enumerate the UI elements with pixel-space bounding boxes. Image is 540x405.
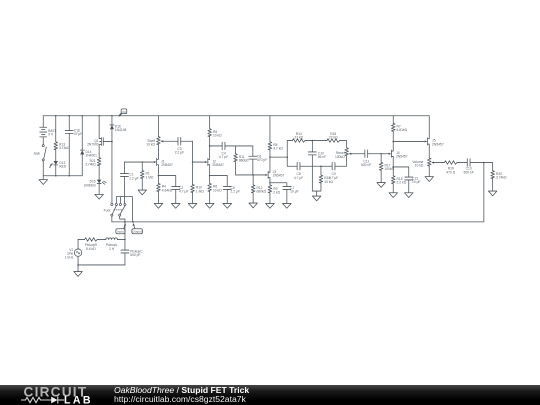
ground (C12): [404, 193, 413, 198]
transistor J4 2N5457: [389, 150, 408, 167]
capacitor C2 4.7uF (J1 bypass): [158, 176, 188, 204]
source V1 sine 1kHz: [65, 239, 82, 265]
capacitor C6 470pF: [249, 146, 267, 175]
potentiometer Volume 10k: [412, 158, 444, 177]
diode D16 1N4148: [110, 116, 127, 204]
diode D14 1N4001: [80, 116, 97, 176]
ground (V1): [74, 265, 83, 276]
capacitor C7 10uF (J3 bypass): [270, 183, 299, 204]
capacitor C1 2.2uF input cap: [120, 162, 138, 197]
transistor J5 2N5457 source follower: [425, 116, 444, 158]
resistor R11 680k: [234, 146, 253, 175]
resistor R9 2k (J3 source): [268, 183, 280, 204]
wire J4 drain to J5 gate: [393, 141, 424, 143]
svg-text:LAB: LAB: [64, 395, 93, 405]
resistor R21 3.74k (green LED): [85, 154, 101, 180]
capacitor C10 56nF (twin-T center): [308, 141, 326, 192]
capacitor C5 2.2uF (J2 bypass): [210, 176, 240, 204]
resistor R19 470 ohm output: [444, 161, 467, 175]
capacitor PickupC 500pF: [121, 249, 143, 265]
resistor R17 100k (J4 gate): [379, 154, 394, 183]
resistor R12 680k: [251, 175, 266, 203]
ground (R12): [249, 203, 258, 208]
node Output flag: [132, 223, 143, 234]
junction dots bottom-left rail: [55, 175, 57, 177]
resistor R6 10k (J2 source): [208, 176, 222, 204]
ground (C5): [223, 203, 232, 208]
capacitor C3 2.2uF: [175, 137, 193, 154]
resistor R4 4.64k (J1 source): [157, 176, 173, 204]
switch SW Jack: [33, 145, 46, 176]
wire J3 drain to twin-T: [270, 156, 287, 158]
potentiometer Shelf 10k (J1 drain): [146, 116, 178, 155]
ground (R18): [389, 193, 398, 198]
wire bottom-left rail: [43, 175, 82, 177]
resistor R7 6.81k (J4 drain): [391, 116, 407, 151]
switch SW2 Foot (DPDT bypass): [104, 197, 133, 222]
capacitor C11 500nF: [361, 150, 389, 167]
resistor R16 27k (twin-T top right): [312, 132, 346, 148]
transistor J1 2N5457: [154, 155, 173, 176]
inductor PickupL 2H: [106, 238, 125, 251]
resistor R13 3.74k (red LED dropper): [54, 116, 70, 161]
resistor PickupR 5.6k: [78, 238, 106, 251]
resistor R10 1M (J2 gate leak): [191, 162, 205, 203]
capacitor C12 10uF (J4 bypass): [393, 167, 420, 193]
resistor R1 1M: [140, 162, 154, 190]
capacitor C16 47uF: [65, 116, 82, 176]
ground (twin-T): [312, 196, 321, 201]
LED D15 GREEN: [84, 180, 106, 195]
battery BAT1 9V: [40, 116, 57, 145]
ground (green LED): [95, 194, 104, 199]
transistor Q1 2N7000: [87, 116, 112, 154]
ground (R17): [377, 183, 386, 188]
wire output return: [112, 163, 484, 222]
ground (R9): [266, 203, 275, 208]
wire J3 gate: [253, 174, 265, 176]
wire twin-T left vertical: [286, 141, 288, 167]
ground (R1): [138, 190, 147, 195]
LED D13 RED: [50, 161, 67, 176]
ground (R4): [154, 203, 163, 208]
ground (R6): [205, 203, 214, 208]
capacitor C8 4.7uF (twin-T bottom left): [287, 162, 332, 179]
wire pickup node: [124, 222, 126, 250]
resistor R18 2.2k (J4 source): [391, 167, 406, 193]
resistor R8 4.7k (J3 drain): [268, 116, 283, 173]
node VA flag: [119, 109, 127, 116]
top power rail VA: [43, 115, 429, 117]
junction dots top rail: [55, 115, 57, 117]
ground (R10): [188, 203, 197, 208]
transistor J3 2N5457: [265, 170, 284, 183]
ground (Volume pot): [425, 177, 434, 182]
transistor J2 2N5457: [205, 158, 224, 175]
footer bar: [0, 385, 540, 405]
resistor R5 10k (J2 drain): [208, 116, 222, 160]
wire C3 to J2 gate: [193, 141, 206, 162]
ground (R20): [488, 191, 497, 196]
ground (C7): [283, 203, 292, 208]
capacitor C4 4.7uF coupling: [210, 142, 236, 159]
node Input flag: [116, 223, 126, 234]
ground (C2): [171, 203, 180, 208]
node Q1 gate junction: [111, 141, 113, 143]
resistor R14 27k (twin-T top left): [287, 132, 312, 143]
resistor R15 10k (twin-T shunt): [312, 166, 333, 196]
resistor R20 3.74k output load: [491, 163, 507, 192]
wire pickup bottom: [78, 264, 125, 266]
ground (battery): [39, 176, 48, 185]
wire J1 gate rail: [124, 161, 153, 163]
capacitor C9 4.7uF (twin-T bottom right): [329, 160, 347, 180]
potentiometer Reset 100k: [335, 148, 365, 160]
capacitor C13 500nF output: [464, 159, 493, 175]
